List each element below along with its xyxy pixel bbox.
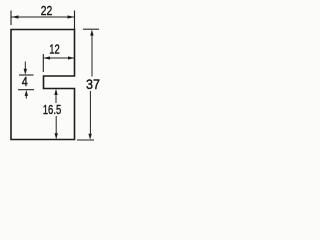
dimension 12 extension line left <box>42 54 44 72</box>
dimension 12 arrow right <box>68 56 75 59</box>
dimension 22 extension line right <box>74 11 76 30</box>
dimension 37 line lower segment with arrow pointing down <box>89 91 91 134</box>
svg-text:16.5: 16.5 <box>43 103 62 117</box>
dimension 37 extension line top <box>83 28 99 30</box>
dimension 16.5 upper segment arrow pointing up <box>55 94 57 103</box>
dimension 12 line <box>43 57 74 59</box>
dimension 22 arrow right <box>68 15 75 18</box>
dimension 4 extension line top <box>19 74 34 76</box>
dimension 22 arrow left <box>12 15 19 18</box>
svg-text:37: 37 <box>86 76 100 92</box>
dimension 22 extension line left <box>10 11 12 26</box>
svg-text:22: 22 <box>41 4 53 18</box>
dimension 4 lower arrow pointing up <box>25 95 27 99</box>
dimension 16.5 lower segment arrow pointing down <box>55 116 57 134</box>
svg-text:12: 12 <box>49 43 60 57</box>
dimension 12 arrow left <box>43 56 50 59</box>
dimension 4 upper arrow pointing down <box>24 62 26 71</box>
dimension 22 line <box>12 16 75 18</box>
dimension 37 extension line bottom <box>77 139 94 141</box>
svg-text:4: 4 <box>22 75 28 89</box>
part outline with slot <box>11 30 75 140</box>
dimension 37 line upper segment with arrow pointing up <box>91 36 93 77</box>
dimension 4 extension line bottom <box>18 89 34 91</box>
